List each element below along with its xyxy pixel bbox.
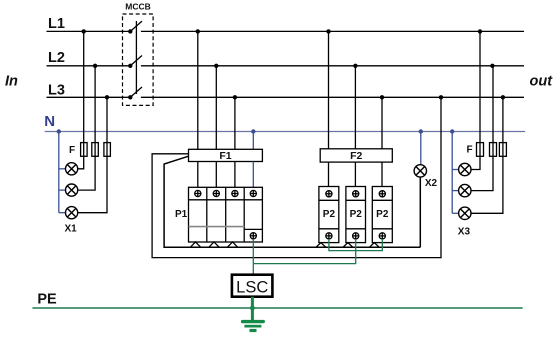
junction N tap to F1 (251, 129, 255, 133)
wire lamp X2 down to signalling rail (419, 177, 421, 247)
svg-text:P2: P2 (350, 209, 363, 220)
P1 terminal 1 (195, 190, 201, 196)
svg-text:PE: PE (37, 292, 57, 308)
wire F1 to P1 neutral (blue) (252, 162, 254, 188)
fuse block F2 (320, 149, 392, 162)
junction L1 right tap (478, 29, 482, 33)
wire F1 feed loop (outer): F1 left to L3 (152, 97, 441, 257)
P1 divider 2 (225, 187, 227, 242)
junction L1 left tap (82, 29, 86, 33)
wire L3 bus left segment (47, 96, 131, 98)
svg-text:X3: X3 (458, 227, 471, 238)
P2-3 top terminal (379, 191, 385, 197)
wire N down to lamps X3 (451, 132, 453, 214)
wire L1 to F1 (197, 31, 199, 149)
P2-2 breakaway chevron (343, 243, 353, 248)
junction L1 tap to F2 (326, 29, 330, 33)
svg-text:N: N (44, 113, 55, 130)
junction L2 tap to F1 (214, 64, 218, 68)
junction L3 tap to F2 (380, 95, 384, 99)
wire L1 to fuse F(right,1) and lamp X3-1 (471, 31, 480, 169)
wire stub N to lamp X3-2 (452, 190, 459, 192)
P1 terminal 3 (232, 190, 238, 196)
svg-text:P1: P1 (175, 209, 188, 220)
fuse F right 3 (499, 143, 506, 157)
svg-text:L1: L1 (48, 16, 65, 32)
wire N to F1 (blue) (252, 132, 254, 150)
lamp X1-1 (66, 163, 78, 175)
surge arrester P2-1 body (319, 187, 339, 243)
junction L3 left tap (105, 95, 109, 99)
P1 terminal row separator (189, 199, 263, 201)
wire N to lamp X2 (blue) (420, 132, 422, 165)
wire stub N to lamp X1-3 (59, 212, 66, 214)
breaker MCCB linkage (135, 21, 137, 94)
P1 breakaway chevron 2 (209, 242, 219, 247)
svg-text:X2: X2 (425, 178, 438, 189)
P1 gray separator (189, 226, 245, 228)
wire signalling rail (inner) (164, 156, 420, 247)
junction L1 tap to F1 (196, 29, 200, 33)
wire L1 bus left segment (47, 30, 131, 32)
P2-3 breakaway chevron (369, 243, 379, 248)
P1 earth terminal (250, 233, 256, 239)
surge arrester P2-2 body (346, 187, 366, 243)
fuse F left 3 (104, 143, 111, 157)
P2-3 top separator (372, 199, 392, 201)
junction N right tap (450, 129, 454, 133)
svg-text:F: F (69, 145, 75, 156)
wire L3 to F1 (234, 97, 236, 149)
breaker MCCB pole 2 contact (128, 64, 132, 68)
controller LSC box (232, 275, 273, 297)
ground electrode bar 2 (244, 325, 261, 328)
junction N left tap (57, 129, 61, 133)
surge arrester P2-3 body (372, 187, 392, 243)
P2-2 bottom separator (346, 228, 366, 230)
wire stub N to lamp X1-1 (59, 168, 66, 170)
junction L3 right tap (501, 95, 505, 99)
P2-1 breakaway chevron (316, 243, 326, 248)
fuse F left 1 (81, 143, 88, 157)
junction L2 tap to F2 (353, 64, 357, 68)
wire N bus (45, 131, 525, 133)
P1 terminal 4 (250, 190, 256, 196)
wire L3 bus right segment (141, 96, 524, 98)
svg-text:L2: L2 (48, 50, 65, 66)
svg-text:F: F (467, 145, 473, 156)
svg-text:P2: P2 (376, 209, 389, 220)
P2-1 top separator (319, 199, 339, 201)
junction L3 tap to F1 (233, 95, 237, 99)
wire earth cross link (green) (253, 239, 355, 264)
P1 terminal 2 (213, 190, 219, 196)
wire stub N to lamp X3-3 (452, 212, 459, 214)
wire N down to lamps X1 (58, 132, 60, 213)
lamp X3-2 (459, 184, 471, 196)
svg-text:X1: X1 (65, 224, 78, 235)
P2-3 bottom terminal (379, 233, 385, 239)
wire L2 to fuse F(left,2) and lamp X1-2 (78, 66, 95, 190)
junction PE tap (250, 306, 255, 311)
wire PE bus (green) (32, 307, 522, 309)
P2-2 top separator (346, 199, 366, 201)
fuse F right 1 (477, 143, 484, 157)
P2-2 bottom terminal (353, 233, 359, 239)
junction L3 tap to outer loop (439, 95, 443, 99)
fuse F right 2 (490, 143, 497, 157)
wire L2 to fuse F(right,2) and lamp X3-2 (471, 66, 493, 191)
wire stub N to lamp X1-2 (59, 189, 66, 191)
P1 divider 3 (243, 187, 245, 242)
breaker MCCB enclosure (dashed) (123, 14, 154, 105)
breaker MCCB pole 3 contact (128, 95, 132, 99)
wire LSC to earth electrode (green, thick) (251, 297, 254, 321)
breaker MCCB pole 1 blade (130, 21, 142, 31)
fuse F left 2 (92, 143, 99, 157)
junction N tap to lamp X2 (419, 129, 423, 133)
surge arrester block P1 body (189, 187, 263, 242)
P2-1 bottom terminal (326, 233, 332, 239)
svg-text:out: out (530, 74, 554, 90)
svg-text:MCCB: MCCB (125, 1, 151, 11)
lamp X3-1 (459, 163, 471, 175)
wire L1 bus right segment (141, 30, 524, 32)
wire earth P1 to LSC (green) (252, 239, 254, 275)
wire F2 to P2-1 (328, 162, 330, 186)
P2-1 bottom separator (319, 228, 339, 230)
svg-text:F1: F1 (219, 150, 231, 162)
P1 module 4 bottom separator (244, 228, 262, 230)
lamp X2 (414, 165, 426, 177)
svg-text:L3: L3 (48, 82, 65, 98)
wire L2 bus right segment (141, 65, 524, 67)
wire F1 to P1 phase 1 (197, 162, 199, 188)
lamp X1-3 (66, 207, 78, 219)
junction L2 left tap (93, 64, 97, 68)
P2-2 top terminal (353, 191, 359, 197)
wire F2 to P2-3 (381, 162, 383, 186)
ground electrode bar 3 (250, 329, 257, 332)
wire L2 to F1 (215, 66, 217, 150)
svg-text:P2: P2 (323, 209, 336, 220)
wire L1 to fuse F(left,1) and lamp X1-1 (78, 31, 84, 168)
wire F1 to P1 phase 2 (215, 162, 217, 188)
wire L3 to fuse F(left,3) and lamp X1-3 (78, 97, 107, 212)
wire F1 to P1 phase 3 (234, 162, 236, 188)
svg-text:F2: F2 (350, 150, 362, 162)
svg-text:LSC: LSC (236, 279, 268, 297)
breaker MCCB pole 2 blade (130, 56, 142, 66)
P1 breakaway chevron 1 (191, 242, 201, 247)
breaker MCCB pole 3 blade (130, 87, 142, 97)
fuse block F1 (189, 149, 263, 161)
wire L1 to F2 (328, 31, 330, 148)
P2-1 top terminal (326, 191, 332, 197)
wire stub N to lamp X3-1 (452, 169, 459, 171)
junction L2 right tap (490, 64, 494, 68)
P1 breakaway chevron 3 (228, 242, 238, 247)
breaker MCCB pole 1 contact (128, 29, 132, 33)
wire F2 to P2-2 (354, 162, 356, 186)
wire L2 to F2 (354, 66, 356, 149)
wire L3 to fuse F(right,3) and lamp X3-3 (471, 97, 503, 213)
P1 divider 1 (206, 187, 208, 242)
lamp X3-3 (459, 207, 471, 219)
lamp X1-2 (66, 184, 78, 196)
P2-3 bottom separator (372, 228, 392, 230)
wire L2 bus left segment (47, 65, 131, 67)
ground electrode bar 1 (241, 320, 265, 323)
svg-text:In: In (5, 74, 18, 90)
wire earth P2 bus (green) (329, 239, 382, 251)
wire L3 to F2 (381, 97, 383, 149)
